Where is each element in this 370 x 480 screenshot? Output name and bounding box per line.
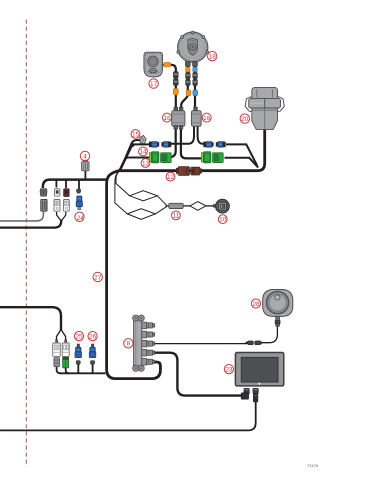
blue connector pair 14 right	[204, 142, 226, 148]
wire display straight connector to left edge	[0, 402, 256, 431]
callout label 13	[141, 159, 150, 168]
display 23	[235, 353, 283, 386]
device 20 engine harness connector	[245, 87, 284, 129]
module 16 right	[191, 107, 201, 126]
orange connector at device 17 output	[164, 63, 171, 67]
stack4 top connector	[77, 189, 81, 193]
callout label 14	[139, 147, 148, 156]
left cluster bus wire	[43, 180, 108, 188]
callout label 4	[80, 151, 89, 160]
stack3 top connector	[64, 189, 69, 197]
connector 26 blue	[89, 344, 96, 364]
wire green pair 13 left to harness junction	[120, 158, 150, 170]
wire green connector to lower bus	[66, 368, 69, 374]
callout label 11	[172, 211, 181, 220]
wire blue pair 14 left to harness junction	[133, 144, 151, 146]
callout label 15	[131, 130, 140, 139]
block terminal row 4	[142, 349, 155, 356]
split wires to lower white connectors	[57, 330, 62, 340]
stack2 white connector	[54, 200, 60, 212]
svg-text:4: 4	[83, 153, 87, 160]
lower bus wire into trunk	[60, 372, 106, 374]
callout label 12	[166, 172, 175, 181]
svg-text:18: 18	[209, 54, 217, 61]
wire from device 18 left stub to module 16 left	[181, 63, 188, 109]
callout label 17	[149, 79, 158, 88]
svg-text:11: 11	[173, 213, 180, 220]
wire blue pair 14 right to engine harness	[226, 144, 257, 165]
callout label 27	[93, 272, 102, 281]
orange band wire B lower	[186, 90, 191, 96]
callout label 16	[202, 113, 211, 122]
device 18 right output stub	[193, 61, 198, 66]
wires loops merge to fuse 11	[157, 196, 166, 206]
wire loop 3	[190, 202, 206, 211]
fuse holder 11	[169, 203, 183, 208]
brown connector pair 12	[176, 167, 202, 176]
svg-text:28: 28	[252, 301, 260, 308]
wire stub stack4	[78, 180, 80, 190]
harness bundle diagonal	[120, 143, 133, 170]
thick wire block row4 to display elbow connector	[153, 353, 242, 396]
device 10 round connector	[213, 199, 230, 213]
callout label 16	[163, 113, 172, 122]
stack1 lower connector	[41, 200, 47, 212]
stack2 top connector	[55, 189, 60, 196]
upper wire loop	[130, 191, 158, 201]
svg-text:20: 20	[241, 116, 249, 123]
stack3 white connector	[64, 200, 70, 212]
grey wire from stack1 to left edge	[0, 212, 43, 221]
svg-text:17: 17	[150, 81, 158, 88]
wire module 16 left to green connector 13 right pair	[181, 126, 204, 158]
wire stub stack3	[65, 180, 67, 188]
callout label 20	[240, 114, 249, 123]
svg-text:27: 27	[94, 274, 102, 281]
svg-text:26: 26	[89, 333, 97, 340]
device 17 control pad	[144, 52, 163, 77]
svg-text:8: 8	[127, 341, 131, 348]
green connector pair 13 left	[149, 152, 171, 163]
blue band wire C lower	[193, 90, 198, 96]
wire module 16 right to blue connector 14 left pair	[171, 126, 195, 144]
wire device 28 down to inline connector	[263, 326, 278, 343]
callout label 18	[208, 52, 217, 61]
device 28 remote dial	[263, 290, 293, 317]
svg-text:23: 23	[225, 366, 233, 373]
svg-text:12: 12	[167, 174, 175, 181]
block terminal row 3	[142, 340, 155, 347]
lower white connector 2	[62, 339, 69, 356]
svg-text:10: 10	[219, 217, 227, 224]
callout label 25	[74, 332, 83, 341]
svg-text:16: 16	[203, 115, 211, 122]
blue band wire C	[193, 67, 197, 72]
display straight connector	[253, 388, 259, 402]
thin wires stacks 2,3 merge	[57, 212, 61, 221]
black wire to left edge	[0, 220, 61, 228]
svg-text:13: 13	[142, 160, 150, 167]
junction block 8	[133, 315, 145, 371]
lower wire loop	[127, 209, 155, 220]
wire connector 26 to lower bus	[92, 364, 94, 373]
wire fuse 11 to loop 3	[183, 205, 191, 207]
bullet connector pair wire A	[173, 72, 178, 86]
bullet connector pair wire C	[193, 72, 198, 85]
bullet connector pair wire B	[186, 72, 191, 85]
thin wire block row3 to device 28 cable	[154, 343, 247, 345]
lower green connector	[63, 357, 69, 368]
orange band wire A lower	[173, 89, 178, 95]
block terminal row 1	[142, 322, 155, 329]
svg-text:24: 24	[77, 215, 85, 222]
main bus wire junction to device 20 through connector 12	[120, 128, 265, 171]
wire from device 17 to module 16 left	[163, 65, 176, 108]
svg-text:25: 25	[75, 333, 83, 340]
wire green pair 13 right to engine harness	[225, 158, 259, 168]
svg-text:16: 16	[163, 115, 171, 122]
connector 25 blue	[75, 344, 82, 364]
callout label 10	[218, 215, 227, 224]
wire stub stack2	[55, 180, 57, 188]
wire connector 15 to harness junction	[120, 140, 140, 170]
lower grey connector	[54, 358, 60, 367]
blue connector pair 14 left	[149, 142, 171, 148]
green connector pair 13 right	[201, 152, 223, 163]
wire connector 25 to lower bus	[77, 364, 79, 373]
dashed boundary line	[25, 20, 27, 468]
wire connector 4 to bus	[84, 171, 86, 180]
callout label 26	[88, 332, 97, 341]
callout label 8	[124, 339, 133, 348]
svg-text:71176: 71176	[307, 463, 319, 468]
stack1 top connector	[40, 189, 47, 196]
callout label 24	[75, 212, 84, 222]
wire from device 18 right stub to module 16 right	[194, 63, 196, 109]
lower white connector 1	[53, 339, 61, 356]
block terminal row 2	[142, 331, 155, 338]
wire module 16 right to blue connector 14 right pair	[198, 126, 205, 144]
thin harness wire to lower loop	[115, 172, 127, 214]
device 18 round hub	[177, 31, 209, 62]
inline connector pair on device 28 cable	[245, 341, 263, 345]
connector 4	[82, 160, 90, 171]
thick wire left edge to lower white connectors	[0, 307, 61, 330]
device 18 left output stub	[185, 61, 190, 66]
trunk wire 27 down to junction block 8	[107, 170, 161, 378]
wire grey connector to lower bus	[57, 366, 61, 373]
svg-text:14: 14	[139, 149, 147, 156]
thin harness wire to upper loop	[116, 172, 130, 196]
module 16 left	[172, 107, 185, 129]
connector 24 blue	[76, 196, 82, 210]
device 28 output connector	[275, 317, 280, 327]
orange band wire B	[186, 67, 190, 72]
svg-text:15: 15	[132, 131, 140, 138]
callout label 28	[251, 299, 260, 308]
callout label 23	[224, 365, 233, 374]
connector 15	[140, 135, 147, 143]
wire loop 3 to device 10	[206, 205, 216, 207]
block terminal row 5	[142, 359, 155, 366]
wire module 16 left to green connector 13 left pair	[167, 126, 176, 157]
display elbow connector	[241, 388, 249, 399]
